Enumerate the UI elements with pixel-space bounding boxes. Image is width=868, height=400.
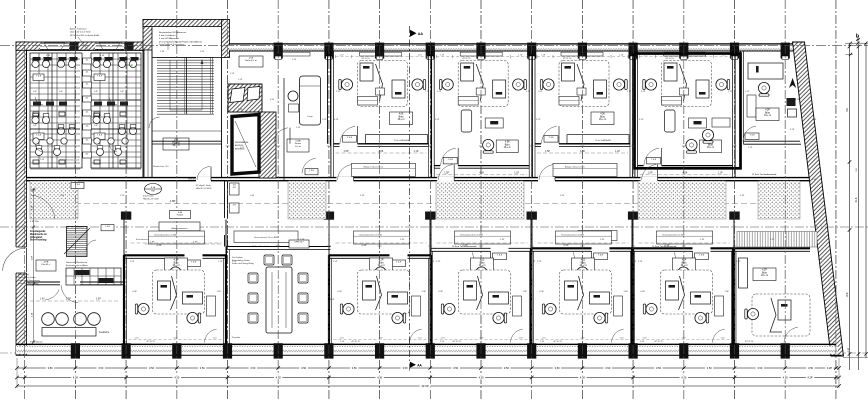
column top row at grid 5 (274, 43, 283, 59)
svg-text:1.5P: 1.5P (725, 291, 730, 293)
bottom room 1 door swing 2 (45, 290, 59, 300)
top office 3 (432, 51, 532, 168)
svg-text:4 ram Lichtbeton: 4 ram Lichtbeton (159, 34, 176, 37)
top office 5 interior south wall with door (638, 165, 644, 167)
stair tower south door arc (197, 167, 210, 180)
corridor stair door arc (86, 240, 96, 250)
stair walk line with arrow (170, 60, 202, 110)
WC block outer walls (27, 50, 144, 177)
svg-text:6.5P: 6.5P (330, 299, 335, 301)
svg-text:4.30: 4.30 (580, 376, 586, 380)
WC tag 1 (83, 58, 92, 64)
svg-text:1.8P: 1.8P (150, 242, 155, 244)
svg-text:4.14: 4.14 (682, 260, 687, 262)
column top row at grid 14 (730, 43, 739, 59)
svg-text:TBI: TBI (151, 190, 155, 192)
interior dimension chain left room (33, 188, 35, 342)
svg-text:Ø ram Klinkerfix Abstell Fußbn: Ø ram Klinkerfix Abstell Fußbn Obm Abfer… (159, 40, 203, 43)
svg-text:Büro: Büro (581, 261, 587, 264)
svg-text:3.50: 3.50 (98, 366, 104, 370)
svg-text:1.5P: 1.5P (545, 150, 550, 153)
svg-text:Bestandswand 10 cm BBB: Bestandswand 10 cm BBB (360, 233, 383, 236)
svg-text:1.1P: 1.1P (526, 91, 531, 93)
svg-text:Anlage-abwasser: Anlage-abwasser (171, 227, 187, 230)
top office 2 small drawer unit (376, 88, 385, 95)
svg-text:12,5m 3xBBStdBB: 12,5m 3xBBStdBB (394, 139, 410, 142)
svg-text:8.3m Trockenbauwand: 8.3m Trockenbauwand (60, 159, 79, 162)
bottom office 7 side cabinet (715, 296, 724, 316)
column top row at grid 10 (527, 43, 536, 59)
bottom office 5 desk west (464, 281, 477, 300)
svg-text:4.06: 4.06 (600, 114, 605, 116)
svg-text:1.1P: 1.1P (615, 150, 620, 153)
svg-text:2.3P: 2.3P (770, 239, 775, 241)
svg-text:Bestandsbau WC/Abwasser: Bestandsbau WC/Abwasser (159, 31, 187, 34)
svg-text:1.8P: 1.8P (812, 179, 817, 181)
svg-text:1.5P: 1.5P (641, 91, 646, 93)
top office 5 interior (635, 51, 735, 168)
top office 2 corridor cupboard (352, 163, 416, 176)
bottom office 2 door tag (187, 260, 201, 267)
svg-text:Geböschte Wandnische: Geböschte Wandnische (66, 261, 88, 264)
corridor stair diagonal break line (64, 228, 90, 254)
svg-text:Bestandsniche im Altbau: Bestandsniche im Altbau (66, 264, 88, 267)
bottom office 6 desk west (565, 281, 578, 300)
column bottom row at grid 10 (527, 343, 536, 358)
top office 2 desk diagonal cable (376, 64, 383, 101)
bottom office 6 room tag (572, 258, 595, 271)
svg-text:Ø7 ID TK.: Ø7 ID TK. (362, 58, 371, 60)
lobby oval room tag (145, 184, 162, 195)
bottom office 4 desk diagonal (376, 276, 382, 310)
top office 4 corridor cupboard (553, 163, 617, 176)
right dimension line 2 (858, 44, 860, 370)
svg-text:3.50: 3.50 (200, 366, 206, 370)
top room 1 west niche wall (229, 85, 230, 87)
svg-text:ØT ID TK.: ØT ID TK. (745, 341, 754, 343)
svg-text:4.08: 4.08 (683, 172, 688, 175)
WC fixture (93, 60, 100, 67)
section cut line A-A (408, 26, 410, 371)
installation shaft (hatched block) (228, 84, 262, 112)
svg-text:4.30: 4.30 (681, 376, 687, 380)
WC tag 6 (83, 124, 92, 130)
svg-text:1.5P: 1.5P (648, 172, 653, 175)
svg-text:4.30: 4.30 (377, 376, 383, 380)
right dimension header line (845, 42, 868, 44)
meeting chair (248, 313, 258, 323)
corridor cupboard box east (578, 231, 617, 241)
stair railing lines (210, 58, 212, 115)
bottom office 6 (531, 248, 633, 344)
column top row at grid 13 (679, 43, 688, 59)
entrance bold note block (30, 231, 47, 242)
WC fixture (114, 148, 121, 155)
WC fixture (57, 60, 64, 67)
bottom office 2 sill dimension row (129, 338, 222, 340)
meeting chair x48 (42, 313, 55, 326)
WC entrance opening east (95, 43, 124, 50)
svg-text:3.50: 3.50 (48, 366, 54, 370)
WC tag east low (94, 133, 105, 140)
annotation leader lines (78, 37, 88, 50)
svg-text:3.50: 3.50 (605, 366, 611, 370)
svg-text:4.1P: 4.1P (174, 260, 179, 262)
meeting chair x94 (88, 313, 101, 326)
svg-text:T 4.8: T 4.8 (750, 135, 756, 137)
top office 2 corridor door swing (338, 165, 353, 180)
bottom office 5 (430, 248, 532, 344)
top office 4 low cabinet (559, 97, 579, 106)
bottom office 6 desk diagonal (578, 276, 584, 310)
bottom office 6 door swing (574, 252, 590, 269)
top room 1 shaft partition wall (283, 78, 285, 180)
column bottom row at grid 3 (172, 343, 181, 358)
top office 2 desk left (360, 63, 373, 81)
svg-text:T 4.8: T 4.8 (75, 184, 81, 186)
column top row at grid 11 (578, 43, 587, 59)
column top row at grid 7 (375, 43, 384, 59)
corridor south axis line (dash-dot) (0, 226, 868, 228)
bottom office 2 desk diagonal (171, 276, 177, 310)
svg-text:Wandschutz 1.20: Wandschutz 1.20 (153, 165, 169, 168)
column top row at grid 6 (324, 43, 333, 59)
top office 4 chair west (540, 79, 554, 90)
bottom office 7 sill dimension row (637, 338, 730, 340)
meeting table (266, 267, 292, 333)
top office 2 window dimension row (336, 56, 427, 58)
top office 5 interior desk right (696, 80, 709, 98)
corridor west door tag (101, 225, 114, 231)
bottom office 4 visitor chair (375, 267, 386, 281)
svg-text:Altbestand,: Altbestand, (30, 236, 43, 239)
corridor cupboard box room3 (234, 231, 298, 243)
svg-text:8,« m: 8,« m (295, 146, 301, 148)
svg-text:T 4.8: T 4.8 (448, 159, 454, 161)
svg-text:T 4.8: T 4.8 (97, 135, 103, 137)
svg-text:3.50: 3.50 (707, 366, 713, 370)
svg-text:2.3P: 2.3P (665, 244, 670, 247)
stair flight treads (157, 58, 214, 115)
heating room door arc (302, 158, 316, 173)
top office 5 interior chair east (716, 79, 730, 90)
svg-text:Büro: Büro (505, 143, 511, 146)
column bottom row at grid 4 (223, 343, 232, 358)
svg-text:16,« m: 16,« m (599, 119, 606, 121)
WC fixture (118, 60, 125, 67)
bottom office 2 desk cluster (153, 270, 205, 314)
bottom office 8 hatched strip (737, 232, 817, 248)
svg-text:4mph Dede,: 4mph Dede, (143, 196, 154, 198)
bottom office 7 desk west (666, 281, 679, 300)
bottom office 8 desk cluster (752, 294, 810, 336)
svg-text:Ø7 ID TK.: Ø7 ID TK. (563, 58, 572, 60)
bottom office 4 desk return (388, 292, 408, 304)
svg-text:HBe BL,2,P+BLD: HBe BL,2,P+BLD (196, 188, 212, 190)
floor mat x288 (288, 181, 326, 219)
svg-text:T 4.8: T 4.8 (347, 137, 353, 139)
bottom office 7 visitor chair (678, 267, 689, 281)
svg-text:1.1P: 1.1P (218, 261, 223, 263)
svg-text:T 4.8: T 4.8 (651, 159, 657, 161)
top room 1 couch (300, 76, 321, 125)
top office 2 radiator (360, 52, 402, 56)
column top row at grid 12 (629, 43, 638, 59)
stair tower east wall (222, 20, 230, 58)
corridor north wall (27, 177, 810, 179)
left entrance door swing (3, 248, 26, 271)
svg-text:2.3P: 2.3P (700, 239, 705, 241)
bottom office 7 chair west (643, 303, 657, 314)
bottom office 2 room tag (165, 258, 188, 271)
bottom office 5 sill dimension row (435, 338, 528, 340)
bottom office 2 side cabinet (207, 296, 216, 316)
WC fixture (68, 60, 75, 67)
svg-text:Ruhe 8,« m: Ruhe 8,« m (245, 60, 256, 62)
corridor south columns (121, 212, 131, 220)
svg-text:1.5P: 1.5P (444, 172, 449, 175)
svg-text:Büro: Büro (600, 115, 606, 118)
WC fixture (42, 60, 49, 67)
office section top wall inner line (229, 50, 793, 52)
top office 5 interior corridor door opening (641, 177, 658, 182)
column bottom row at grid 12 (629, 343, 638, 358)
heating door tag (305, 169, 318, 175)
svg-text:Farbe nach Bemg Belag: Farbe nach Bemg Belag (232, 263, 254, 265)
svg-text:11,5cm Trockenbauwand: 11,5cm Trockenbauwand (752, 173, 777, 176)
WC tag 3 (83, 82, 92, 88)
meeting chair x80 (74, 313, 87, 326)
svg-text:16,« m: 16,« m (504, 147, 511, 149)
svg-text:3.5P: 3.5P (682, 55, 687, 57)
bottom office 6 chair east (594, 312, 608, 323)
meeting chair (248, 293, 258, 303)
top room 1 side table (289, 104, 299, 112)
top office 4 room tag (591, 112, 614, 125)
dimension extension verticals (16, 358, 18, 388)
corridor small stair (67, 227, 88, 256)
svg-text:Drei Farben: Drei Farben (232, 257, 243, 259)
bottom office 2 north wall (124, 254, 185, 256)
top office 3 radiator (460, 52, 502, 56)
svg-text:3.50: 3.50 (453, 366, 459, 370)
svg-text:Büro: Büro (174, 261, 180, 264)
svg-text:2.3P: 2.3P (600, 239, 605, 241)
svg-text:2.3P: 2.3P (157, 244, 162, 247)
bottom office 6 side cabinet (614, 296, 623, 316)
bottom room 1 (meeting room west) (27, 282, 124, 285)
top office 6 side cabinet (747, 95, 756, 117)
scattered small dimension annotations (40, 51, 823, 343)
top office 3 small drawer unit (476, 88, 485, 95)
svg-text:3.50: 3.50 (808, 366, 814, 370)
top office 6 wall shaft boxes (787, 98, 796, 106)
svg-text:4.06: 4.06 (399, 114, 404, 116)
svg-text:1.5P: 1.5P (344, 150, 349, 153)
svg-text:4.30: 4.30 (73, 376, 79, 380)
bottom office 8 door arc (784, 327, 798, 342)
svg-text:1.5P: 1.5P (437, 91, 442, 93)
svg-text:ØT ID TK.: ØT ID TK. (352, 341, 361, 343)
svg-text:2.3P: 2.3P (564, 244, 569, 247)
WC fixture (68, 127, 75, 134)
svg-text:T 4.8: T 4.8 (97, 76, 103, 78)
column bottom row at grid 1 (71, 343, 80, 358)
top office 4 desk right (594, 80, 607, 98)
stair tower south door gap (196, 177, 211, 182)
slanted east exterior wall (793, 42, 844, 356)
floor mat x436 (436, 181, 524, 219)
WC green check marks (61, 67, 63, 69)
svg-text:6.5P: 6.5P (338, 291, 343, 293)
svg-text:4.08: 4.08 (505, 142, 510, 144)
svg-text:T 4.8: T 4.8 (36, 76, 42, 78)
utility cabinet row (66, 268, 121, 285)
bottom office 4 (329, 255, 431, 344)
bottom office 5 side cabinet (513, 296, 522, 316)
top office 2 corridor door opening (337, 177, 354, 182)
bottom room 1 door swing (61, 285, 78, 303)
bottom office 2 party wall stubs to corridor (123, 220, 125, 256)
bottom office 5 room tag (471, 258, 494, 271)
svg-text:1.40: 1.40 (40, 299, 45, 301)
svg-text:Podest: Podest (177, 214, 184, 217)
column top row at grid 8 (426, 43, 435, 59)
svg-text:1.5P: 1.5P (120, 195, 125, 197)
top office 3 chair east (513, 79, 527, 90)
bottom office 4 desk west (363, 281, 376, 300)
bottom office 5 chair west (441, 303, 455, 314)
top office 6 (east end) (740, 51, 743, 144)
svg-text:4.2P: 4.2P (762, 270, 767, 272)
svg-text:2.3P: 2.3P (500, 239, 505, 241)
landing door swing (149, 117, 160, 128)
svg-text:1.5P: 1.5P (436, 261, 441, 263)
top office 3 door tag (443, 157, 457, 164)
bottom exterior wall upper line (16, 343, 836, 345)
svg-text:1.3P: 1.3P (296, 127, 301, 129)
top office 3 low cabinet (458, 97, 478, 106)
bottom office 8 chair (745, 308, 759, 319)
WC top wall posts (70, 42, 79, 50)
stair side walls (151, 50, 153, 178)
bottom office 5 door swing (473, 252, 489, 269)
top wall of WC section (16, 42, 143, 50)
svg-text:4.12: 4.12 (480, 260, 485, 262)
bottom office 5 door tag (493, 253, 507, 260)
svg-text:Ablage einbauschrank: Ablage einbauschrank (565, 166, 585, 169)
top office 2 low cabinet (358, 97, 378, 106)
district heating room (heavy walls) (232, 115, 259, 175)
svg-text:1.5P: 1.5P (538, 91, 543, 93)
stair block south walls (152, 143, 222, 145)
WC sub-block west (30, 53, 82, 168)
bottom office 6 window door arc (612, 329, 624, 342)
WC fixture (96, 148, 103, 155)
bottom office 2 desk west (158, 281, 171, 300)
svg-text:FERNWÄRME-: FERNWÄRME- (235, 141, 249, 144)
top office 4 corridor door opening (538, 177, 555, 182)
right dimension line 3 (865, 43, 867, 358)
dimension row 1 (per bay) (17, 367, 839, 369)
top office 5 interior small drawer unit (680, 88, 689, 95)
bottom office 2 chair west (135, 303, 149, 314)
svg-text:2.3P: 2.3P (238, 109, 243, 111)
svg-text:4.30: 4.30 (174, 376, 180, 380)
svg-text:4.30: 4.30 (276, 376, 282, 380)
top office 4 sideboard along south wall (567, 135, 629, 144)
meeting chair (282, 255, 292, 265)
WC tag 4 (83, 96, 92, 102)
bottom office 7 room tag (673, 258, 696, 271)
svg-text:1.1P: 1.1P (514, 172, 519, 175)
bottom exterior wall lower line (16, 354, 841, 356)
svg-text:4P altgekl. Dede,: 4P altgekl. Dede, (196, 184, 212, 187)
top office 4 party wall stubs to corridor (531, 146, 533, 177)
bottom office 7 window door arc (713, 329, 725, 342)
svg-text:Fliesenbelag Duden: Fliesenbelag Duden (18, 277, 36, 279)
svg-text:1.5P: 1.5P (748, 147, 753, 149)
svg-text:ØT ID TK.: ØT ID TK. (147, 341, 156, 343)
WC fixture (57, 127, 64, 134)
svg-text:Ø7 ID TK.: Ø7 ID TK. (462, 58, 471, 60)
WC fixture (93, 116, 100, 123)
svg-text:Außen Türleisten: Außen Türleisten (70, 28, 87, 31)
svg-text:über 8.10 in 2,0 Tiefe: über 8.10 in 2,0 Tiefe (70, 31, 91, 34)
svg-text:4.08: 4.08 (479, 172, 484, 175)
svg-text:Projektor: Projektor (232, 336, 241, 339)
top office 5 interior tall cabinet (665, 110, 676, 132)
svg-text:3.5P: 3.5P (479, 337, 484, 339)
bottom office 2 visitor chair (170, 267, 181, 281)
svg-text:3.2P: 3.2P (536, 119, 541, 121)
top office 2 party wall stubs to corridor (330, 146, 332, 177)
svg-text:1.5P: 1.5P (736, 261, 741, 263)
svg-text:HBe BL,2,P+4,4P: HBe BL,2,P+4,4P (143, 199, 159, 201)
WC tag 2 (83, 70, 92, 76)
svg-text:T 4.8: T 4.8 (309, 170, 315, 172)
top office 4 desk cluster outline (559, 61, 609, 107)
svg-text:1.5P: 1.5P (232, 261, 237, 263)
svg-text:1.5P: 1.5P (523, 291, 528, 293)
bottom office 4 room tag (370, 258, 393, 271)
top room 1 door arc (274, 128, 288, 144)
svg-text:1.5P: 1.5P (322, 119, 327, 121)
left exterior wall (16, 42, 27, 355)
top office 2 sideboard along south wall (366, 135, 428, 144)
corridor cupboard box west (Anlage abwasser) (159, 222, 200, 239)
svg-text:ØT ID TK.: ØT ID TK. (554, 341, 563, 343)
svg-text:1.5P: 1.5P (745, 91, 750, 93)
bottom room 3 (meeting room) (227, 247, 331, 345)
svg-text:T 4.8: T 4.8 (396, 262, 402, 264)
bottom office 5 desk diagonal (477, 276, 483, 310)
WC counter dark cells (33, 102, 41, 106)
top office 5 visitor chair (702, 129, 713, 143)
bottom office 4 north wall (329, 254, 390, 256)
WC fixture (32, 60, 39, 67)
bottom office 7 desk diagonal (679, 276, 685, 310)
column top row at grid 15 (781, 43, 790, 59)
bottom office 7 desk cluster (661, 270, 713, 314)
svg-text:18,« m: 18,« m (761, 275, 768, 277)
svg-text:Farbe nach Bemustrung: Farbe nach Bemustrung (18, 279, 39, 282)
bottom office 2 desk return (183, 292, 203, 304)
top office 4 (532, 51, 632, 146)
bottom office 7 corridor cupboard (657, 231, 713, 244)
bottom office 7 desk return (691, 292, 711, 304)
bottom office 4 window door arc (410, 329, 422, 342)
